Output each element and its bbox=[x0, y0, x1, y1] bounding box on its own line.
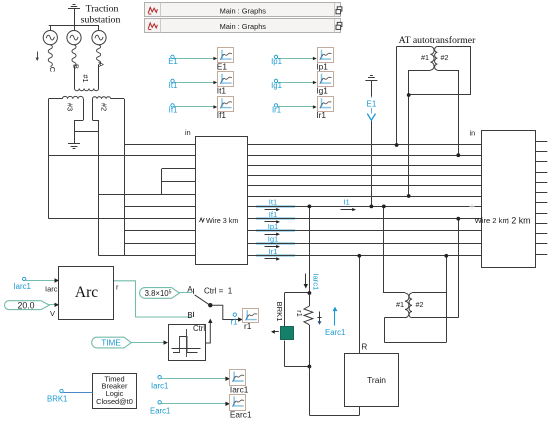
wire: center-tap bus bbox=[74, 131, 99, 133]
svg-text:: 2 km: : 2 km bbox=[507, 216, 531, 226]
ground (substation top) bbox=[68, 5, 80, 26]
node: branch bottom bbox=[308, 365, 312, 369]
AT transformer winding #1 bbox=[421, 47, 434, 71]
svg-text:Ip1: Ip1 bbox=[316, 61, 328, 71]
svg-text:20.0: 20.0 bbox=[17, 300, 34, 310]
svg-text:r1: r1 bbox=[244, 321, 252, 331]
node: branch top bbox=[308, 291, 312, 295]
svg-text:Traction: Traction bbox=[86, 4, 119, 15]
current label If1 bbox=[256, 210, 295, 224]
svg-text:3.8×105: 3.8×105 bbox=[145, 289, 172, 298]
block: Timed Breaker Logic bbox=[93, 374, 137, 409]
svg-text:I1: I1 bbox=[343, 197, 349, 206]
output channel E1 bbox=[168, 55, 217, 66]
svg-text:Closed@t0: Closed@t0 bbox=[96, 397, 133, 406]
svg-text:It1: It1 bbox=[169, 81, 178, 90]
wire: vertical from #3 left bbox=[48, 99, 50, 219]
TIME constant bbox=[92, 337, 168, 348]
Main : Graphs bar 1 bbox=[145, 3, 342, 18]
svg-text:Arc: Arc bbox=[75, 284, 98, 301]
grid mark bbox=[470, 204, 475, 209]
wire: AT neutral down bbox=[409, 70, 431, 196]
graph block Ir1 bbox=[316, 97, 333, 120]
breaker BRK1 (left leg) bbox=[271, 293, 294, 367]
transformer T1 secondary #2 bbox=[92, 97, 124, 111]
2nd AT winding #1 bbox=[396, 293, 409, 318]
block: Wire 2 km bbox=[475, 131, 536, 268]
wire: #3 inner lead bbox=[74, 99, 84, 132]
svg-text:Main : Graphs: Main : Graphs bbox=[220, 22, 267, 31]
wire: 2nd AT catenary tap bbox=[383, 206, 385, 293]
svg-text:If1: If1 bbox=[169, 106, 178, 115]
wire: AT top right loop bbox=[409, 47, 471, 96]
wire: stub vertical left of Wire3km bbox=[161, 169, 163, 194]
node: 2nd AT rail tap bbox=[444, 254, 448, 258]
svg-text:#2: #2 bbox=[100, 103, 109, 111]
current annotation Iarc1 (rotated) bbox=[304, 273, 321, 290]
svg-text:B: B bbox=[187, 311, 192, 320]
wire: 2nd AT rail loop bbox=[384, 256, 446, 343]
svg-text:Ctrl: Ctrl bbox=[193, 324, 205, 333]
svg-text:E1: E1 bbox=[217, 61, 228, 71]
graph block Iarc1 bbox=[230, 370, 249, 395]
AC source phase C bbox=[43, 30, 57, 44]
svg-text:Ig1: Ig1 bbox=[271, 81, 282, 90]
svg-text:BRK1: BRK1 bbox=[47, 395, 67, 404]
svg-text:E1: E1 bbox=[168, 57, 178, 66]
node: fault tap bbox=[308, 205, 312, 209]
svg-text:Main : Graphs: Main : Graphs bbox=[220, 6, 267, 15]
resistor r1 (arc, right leg) bbox=[295, 293, 322, 367]
svg-text:in: in bbox=[185, 128, 191, 137]
constant 20.0 bbox=[5, 300, 60, 318]
wire rows left of Wire3km bbox=[49, 145, 196, 256]
svg-text:Earc1: Earc1 bbox=[230, 409, 252, 419]
node: 2nd AT feeder tap bbox=[456, 217, 460, 221]
graph block If1 bbox=[217, 97, 234, 120]
svg-text:#2: #2 bbox=[441, 53, 449, 62]
svg-text:Earc1: Earc1 bbox=[150, 406, 170, 415]
svg-text:Ip1: Ip1 bbox=[268, 222, 279, 231]
svg-text:Earc1: Earc1 bbox=[325, 328, 345, 337]
block: Wire 3 km bbox=[196, 137, 248, 265]
svg-text:Wire 2 km: Wire 2 km bbox=[475, 216, 509, 225]
comparator output wire bbox=[205, 319, 213, 344]
winding lead A bbox=[96, 45, 105, 89]
svg-text:Ig1: Ig1 bbox=[316, 85, 328, 95]
wire: vertical from #2 right bbox=[124, 99, 126, 256]
wire: branch to train bottom bbox=[309, 367, 359, 416]
svg-text:It1: It1 bbox=[217, 85, 227, 95]
Main : Graphs bar 2 bbox=[145, 19, 342, 34]
svg-text:BRK1: BRK1 bbox=[275, 302, 284, 322]
svg-text:Ip1: Ip1 bbox=[271, 57, 282, 66]
arc branch top rail bbox=[284, 292, 309, 294]
Arc output r wire bbox=[114, 281, 192, 317]
graph block Earc1 bbox=[230, 395, 252, 420]
svg-text:Ctrl = 1: Ctrl = 1 bbox=[204, 286, 233, 295]
wire: 2nd AT #1 top lead bbox=[384, 292, 405, 294]
label: Traction substation bbox=[81, 4, 121, 26]
svg-text:#1: #1 bbox=[81, 74, 90, 82]
switch (two position) bbox=[187, 285, 212, 320]
node: AT neutral junctions bbox=[407, 93, 411, 97]
svg-text:Iarc1: Iarc1 bbox=[230, 385, 249, 395]
ground (transformer center tap) bbox=[68, 132, 80, 149]
voltmeter E1 bbox=[365, 76, 377, 207]
svg-text:in: in bbox=[470, 129, 476, 138]
graph block It1 bbox=[217, 72, 234, 96]
transformer T1 primary #1 bbox=[75, 74, 99, 90]
svg-text:#1: #1 bbox=[396, 300, 404, 309]
wire rows between blocks bbox=[248, 145, 481, 256]
winding lead B bbox=[72, 45, 81, 89]
node: AT feeder tap bbox=[456, 153, 460, 157]
output channel Ip1 bbox=[271, 55, 317, 66]
wire: vertical rail from center tap bbox=[98, 132, 100, 256]
svg-text:If1: If1 bbox=[217, 110, 227, 120]
arrow marker (phase rotation) bbox=[36, 52, 39, 62]
svg-text:A: A bbox=[187, 285, 193, 294]
node: E1 tap bbox=[370, 205, 374, 209]
svg-text:Wire 3 km: Wire 3 km bbox=[206, 216, 238, 225]
svg-text:Iarc1: Iarc1 bbox=[312, 273, 321, 290]
svg-text:substation: substation bbox=[81, 15, 121, 26]
constant 3.8x10^5 bbox=[140, 288, 193, 299]
node: 2nd AT catenary tap bbox=[382, 205, 386, 209]
block: Train bbox=[345, 354, 399, 407]
svg-text:Train: Train bbox=[367, 375, 386, 385]
current label Ip1 bbox=[256, 222, 295, 236]
voltage annotation Earc1 bbox=[325, 307, 345, 338]
svg-text:C: C bbox=[48, 67, 57, 73]
svg-text:Ir1: Ir1 bbox=[316, 110, 326, 120]
block: Arc bbox=[59, 267, 114, 320]
arc branch bottom rail bbox=[284, 366, 309, 368]
wire: fault tap vertical bbox=[309, 206, 311, 293]
svg-text:r1: r1 bbox=[231, 317, 238, 326]
signal BRK1 bbox=[47, 389, 93, 403]
svg-text:E1: E1 bbox=[367, 100, 377, 109]
current label I1 bbox=[341, 197, 357, 211]
graph block Ip1 bbox=[316, 48, 333, 72]
label r1 (cyan) bbox=[233, 313, 236, 316]
transformer T1 secondary #3 bbox=[49, 96, 84, 111]
2nd AT winding #2 bbox=[409, 293, 423, 318]
svg-text:Iarc: Iarc bbox=[45, 285, 58, 294]
svg-text:It1: It1 bbox=[269, 198, 277, 207]
svg-text:R: R bbox=[362, 343, 368, 352]
output channel It1 bbox=[169, 79, 218, 90]
wire: train top feed bbox=[359, 256, 361, 353]
AC source phase B bbox=[67, 30, 81, 44]
svg-text:Ir1: Ir1 bbox=[272, 106, 281, 115]
graph block Ig1 bbox=[316, 72, 333, 96]
svg-text:r1: r1 bbox=[295, 310, 304, 316]
svg-text:B: B bbox=[72, 64, 81, 69]
wire: AT top left bbox=[397, 47, 431, 146]
node: AT catenary tap bbox=[395, 143, 399, 147]
wire: AT #2 bottom bbox=[437, 70, 458, 155]
wire: #2 inner lead bbox=[92, 99, 98, 132]
output channel Ig1 bbox=[271, 79, 317, 90]
svg-text:AT autotransformer: AT autotransformer bbox=[399, 35, 477, 46]
AT transformer winding #2 bbox=[435, 47, 449, 71]
svg-text:#1: #1 bbox=[421, 53, 429, 62]
node: train tap bbox=[357, 254, 361, 258]
current label It1 bbox=[256, 198, 295, 212]
current label Ir1 bbox=[256, 247, 295, 261]
svg-text:#3: #3 bbox=[66, 103, 75, 111]
graph block E1 bbox=[217, 48, 234, 72]
wire: source stubs bbox=[51, 25, 99, 30]
graph block r1 bbox=[243, 309, 259, 332]
svg-text:A: A bbox=[96, 62, 105, 67]
svg-text:Iarc1: Iarc1 bbox=[151, 381, 168, 390]
input Iarc1 bbox=[14, 277, 60, 293]
svg-text:Ig1: Ig1 bbox=[268, 235, 279, 244]
svg-text:If1: If1 bbox=[269, 210, 277, 219]
switch output wire to r1 graph bbox=[212, 305, 242, 322]
svg-text:#2: #2 bbox=[416, 300, 424, 309]
output channel If1 bbox=[169, 104, 218, 115]
current label Ig1 bbox=[256, 235, 295, 249]
svg-text:V: V bbox=[50, 309, 55, 318]
svg-text:Ir1: Ir1 bbox=[269, 247, 278, 256]
Wire 2 km right stubs bbox=[535, 142, 547, 255]
winding lead C bbox=[48, 45, 57, 73]
output channel Ir1 bbox=[272, 104, 317, 115]
svg-text:TIME: TIME bbox=[101, 339, 121, 348]
output channel Iarc1 bbox=[151, 376, 230, 391]
output channel Earc1 bbox=[150, 401, 230, 416]
wire: substation source bus bbox=[49, 25, 99, 27]
svg-text:Iarc1: Iarc1 bbox=[14, 282, 31, 291]
AC source phase A bbox=[92, 30, 106, 44]
wire: 2nd AT feeder lead bbox=[412, 219, 459, 318]
comparator block bbox=[169, 325, 206, 361]
